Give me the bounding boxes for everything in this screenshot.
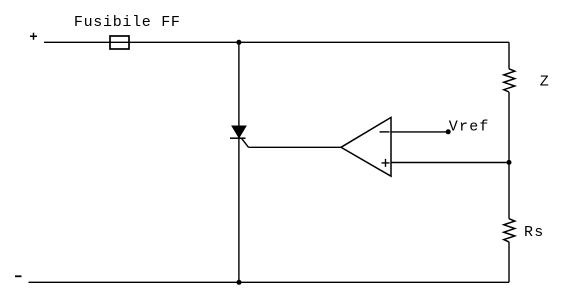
node Vref: [446, 129, 451, 134]
node A (top junction): [236, 40, 241, 45]
wire top horizontal: [44, 41, 509, 43]
wire gate to op-amp output: [249, 146, 342, 148]
wire bottom horizontal: [29, 281, 510, 283]
svg-text:Fusibile FF: Fusibile FF: [74, 14, 181, 31]
svg-text:Rs: Rs: [524, 224, 545, 241]
op-amp U1 body: [341, 117, 391, 176]
resistor Rs zigzag: [504, 219, 515, 242]
op-amp U1 plus input mark: [382, 159, 390, 167]
terminal - (negative input): [15, 275, 22, 277]
resistor Z zigzag: [504, 69, 515, 92]
node C (bottom junction): [237, 280, 242, 285]
wire non-inverting input to right rail: [391, 162, 509, 164]
svg-text:Vref: Vref: [449, 119, 490, 136]
op-amp U1 minus input mark: [380, 131, 390, 133]
node B (right rail junction): [507, 160, 512, 165]
wire inverting input to Vref: [391, 131, 448, 133]
fuse FF: [110, 36, 129, 49]
wire middle vertical: [238, 42, 240, 282]
thyristor Q1 gate lead: [242, 138, 249, 147]
terminal + (positive input): [30, 33, 37, 40]
wire right rail top segment: [508, 42, 510, 69]
wire right rail bottom segment: [508, 242, 510, 282]
thyristor Q1 triangle: [232, 126, 246, 138]
svg-text:Z: Z: [540, 74, 549, 91]
wire right rail middle segment: [508, 92, 510, 219]
thyristor Q1 cathode bar: [230, 137, 246, 139]
